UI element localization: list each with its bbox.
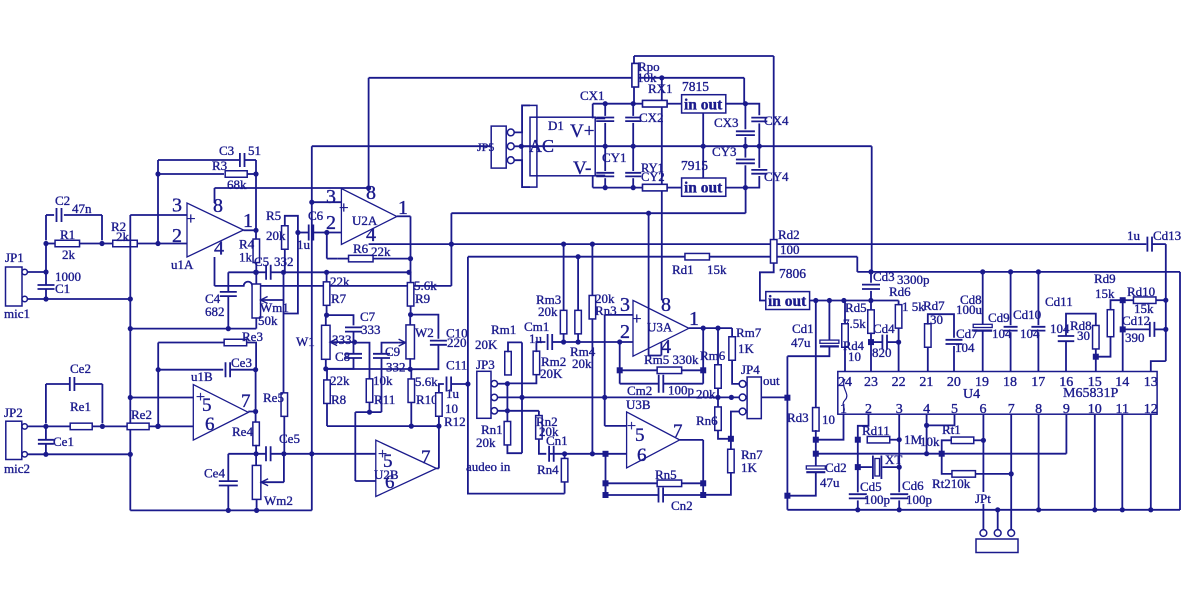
svg-text:Rd3: Rd3 xyxy=(787,410,809,425)
junction ground bus / U2B noninverting xyxy=(309,451,314,456)
svg-text:Cd4: Cd4 xyxy=(873,321,895,336)
wire u1A pin8 stub xyxy=(214,188,216,203)
wire R11 bottom lead xyxy=(369,403,371,413)
svg-text:23: 23 xyxy=(864,375,878,390)
wire U2B inverting riser xyxy=(354,412,356,481)
svg-text:10: 10 xyxy=(822,412,835,427)
svg-text:30: 30 xyxy=(1077,328,1090,343)
junction Rn3 bottom / U3B inverting xyxy=(590,451,595,456)
wire U3B output xyxy=(680,439,704,441)
wire R6 left riser xyxy=(326,233,328,259)
svg-text:R10: R10 xyxy=(416,392,438,407)
wire CY3 top lead xyxy=(744,146,746,157)
svg-text:CY3: CY3 xyxy=(712,144,737,159)
wiper of Wm1 xyxy=(261,299,284,301)
wire XT right xyxy=(882,466,899,468)
junction P1 xyxy=(449,242,454,247)
svg-text:CY4: CY4 xyxy=(764,169,789,184)
junction u1B feedback node xyxy=(155,424,160,429)
junction regulators common xyxy=(701,144,706,149)
wire u1A feedback left riser xyxy=(157,160,159,244)
junction Cd12 right xyxy=(1163,327,1168,332)
wire Rd3 top column xyxy=(815,301,817,409)
wire Rn1 bottom jog xyxy=(507,445,522,453)
svg-text:Cd2: Cd2 xyxy=(825,460,847,475)
wire pin5 jog to pin4 xyxy=(927,414,955,425)
junction C1 bottom node xyxy=(43,296,48,301)
junction AC mid xyxy=(519,144,524,149)
svg-text:R1: R1 xyxy=(60,227,75,242)
wire Cd1 bottom jog xyxy=(787,347,829,356)
svg-text:20K: 20K xyxy=(540,366,563,381)
wire JP5 pin2 AC mid xyxy=(514,145,530,147)
junction R10 bottom xyxy=(409,424,414,429)
wire CY2 bottom lead xyxy=(632,178,634,187)
svg-text:JP3: JP3 xyxy=(476,357,495,372)
junction V+ rail / U3A pin8 column xyxy=(659,75,664,80)
potentiometer Wm2 xyxy=(252,465,261,499)
svg-text:100: 100 xyxy=(780,242,800,257)
wire Rn2 bottom to Cn1 xyxy=(539,439,546,454)
junction Rn5 riser / U3B inverting xyxy=(603,451,609,457)
pin JP3-1 xyxy=(491,381,497,387)
wire JP1 pin1 to node xyxy=(27,271,46,273)
svg-text:W2: W2 xyxy=(415,325,434,340)
wire down to Rd2 top xyxy=(773,56,775,240)
junction R11 bottom xyxy=(367,410,372,415)
svg-text:220: 220 xyxy=(447,335,467,350)
junction Ce5 right / Wm2 wiper riser xyxy=(281,451,286,456)
resistor Rd7 xyxy=(925,324,932,348)
capacitor C7 xyxy=(345,327,362,331)
resistor Rm6 xyxy=(715,365,722,389)
svg-text:1u: 1u xyxy=(446,386,460,401)
wire R5 top jog to C6 node xyxy=(285,216,298,233)
op-amp U3A xyxy=(633,300,689,356)
resistor R4 xyxy=(253,239,259,262)
wire power mid 0V rail xyxy=(521,145,871,147)
wire mic1 lower row xyxy=(46,298,130,300)
wire R6 left xyxy=(337,258,348,260)
capacitor CX2 xyxy=(625,118,641,122)
wire feedback riser to output xyxy=(702,328,704,370)
junction pin8 V+ riser xyxy=(366,185,371,190)
svg-text:24: 24 xyxy=(838,375,852,390)
wire CX3 top lead xyxy=(744,104,746,130)
junction out / Rd3 column xyxy=(813,298,818,303)
wire corner CX1 col xyxy=(592,104,594,119)
junction Ce3 right / Re4 column xyxy=(253,367,258,372)
wire Cn1 right xyxy=(554,453,593,455)
junction Re1 left node xyxy=(43,424,48,429)
wire Rd11 right xyxy=(890,439,899,441)
wire Rt1 left lead xyxy=(942,440,952,453)
wire to C7 top xyxy=(327,315,354,325)
svg-text:10k: 10k xyxy=(373,373,393,388)
wire Ce1 top lead xyxy=(45,428,47,439)
wire Rn6 bottom jog xyxy=(718,430,731,438)
resistor Rpo xyxy=(632,63,639,86)
junction u1B output node xyxy=(253,409,258,414)
wire Rd8 to Rd9 bottom xyxy=(1096,337,1111,357)
label JPt backing xyxy=(975,492,999,504)
svg-text:100p: 100p xyxy=(864,492,890,507)
wire Rm6 bottom lead xyxy=(717,388,719,397)
wire from C2 right plate xyxy=(64,214,102,216)
svg-text:100p: 100p xyxy=(668,383,694,398)
junction Rd8 bottom / pin15 xyxy=(1093,354,1099,360)
wire U3B inverting input xyxy=(592,453,626,455)
wire Rm2 top to Cm1 xyxy=(536,342,545,352)
resistor R12 xyxy=(436,393,443,417)
wire u1A output xyxy=(244,229,257,231)
resistor Re5 xyxy=(281,393,288,417)
svg-text:JP2: JP2 xyxy=(4,405,23,420)
resistor Rd4 xyxy=(842,324,849,348)
capacitor CY3 xyxy=(736,160,755,164)
wire Rn4 bottom lead xyxy=(564,482,566,494)
capacitor CY2 xyxy=(625,173,641,177)
regulator 7815 xyxy=(682,95,726,113)
junction Rd3 bottom / pin1 xyxy=(813,437,819,443)
junction pin4 pin5 tie xyxy=(924,423,929,428)
junction W1 wiper node xyxy=(352,340,357,345)
op-amp u1A xyxy=(187,203,244,257)
wire Cm2 right xyxy=(663,383,703,385)
junction JPt mid ground xyxy=(995,507,1000,512)
resistor Rd8 xyxy=(1093,325,1100,349)
capacitor Cd10 xyxy=(1031,327,1045,331)
svg-text:22: 22 xyxy=(892,375,906,390)
svg-text:10k: 10k xyxy=(920,434,940,449)
wire Rn3 bottom long riser xyxy=(591,319,593,454)
junction pin12 ground xyxy=(1148,507,1153,512)
junction CX3 CY3 mid xyxy=(743,144,748,149)
wire V- distribution with hop xyxy=(215,282,452,286)
capacitor Cd9 xyxy=(1004,327,1018,331)
wire to C2 left plate xyxy=(46,214,54,216)
svg-text:14: 14 xyxy=(1115,375,1129,390)
wire Rm2 bottom jog xyxy=(507,375,536,384)
wire to C10 top xyxy=(411,315,439,339)
wire Rd6 bottom lead xyxy=(898,328,900,342)
capacitor Ce1 xyxy=(38,440,54,444)
resistor R3 xyxy=(225,171,247,178)
junction Rm6 bottom / audio bus xyxy=(715,395,720,400)
capacitor Cd2 xyxy=(806,466,825,469)
capacitor Ce4 xyxy=(219,481,238,485)
wire CY3 bottom lead xyxy=(744,165,746,187)
wire R7 top lead xyxy=(326,272,328,282)
wire Rd6 top lead xyxy=(898,301,900,305)
junction +15V node xyxy=(743,101,748,106)
resistor R1 xyxy=(55,240,80,247)
wire R9 bottom lead xyxy=(410,306,412,314)
junction R7 top / mix row xyxy=(324,270,329,275)
svg-text:Rd9: Rd9 xyxy=(1094,271,1116,286)
wire Rt1 right xyxy=(974,439,984,441)
wire CX2 bottom lead xyxy=(632,123,634,146)
wire U2B inverting row xyxy=(355,411,381,413)
svg-text:C1: C1 xyxy=(55,281,70,296)
junction Rd11 right / pin3 xyxy=(897,437,902,442)
potentiometer W2 xyxy=(406,325,415,359)
svg-text:15k: 15k xyxy=(707,262,727,277)
svg-text:1: 1 xyxy=(243,210,253,232)
svg-text:682: 682 xyxy=(205,304,225,319)
wire to Rn5 xyxy=(606,482,658,484)
connector JP3 xyxy=(477,371,491,418)
wire power mid rail drop xyxy=(871,146,873,272)
wire pin8 column to ground xyxy=(1038,414,1040,510)
svg-text:Re4: Re4 xyxy=(232,424,253,439)
resistor R10 xyxy=(408,379,415,403)
resistor Rd5 xyxy=(868,310,875,334)
junction CY2 bottom xyxy=(631,185,636,190)
pin JP4-1 xyxy=(739,381,746,388)
wire U2A output riser down xyxy=(410,216,412,272)
resistor Rd2 xyxy=(770,240,777,263)
wire R8 bottom lead xyxy=(326,404,328,427)
resistor Rm5 xyxy=(657,367,682,374)
wire R10 bottom lead xyxy=(410,402,412,426)
svg-text:R12: R12 xyxy=(444,414,466,429)
svg-text:6: 6 xyxy=(637,445,647,466)
junction C6 left / R5 jog xyxy=(295,230,300,235)
wire C4 top lead xyxy=(227,272,229,292)
resistor R9 xyxy=(407,283,414,307)
capacitor Cd5 xyxy=(849,494,867,498)
wiper of W1 xyxy=(330,341,354,343)
svg-text:Rn6: Rn6 xyxy=(696,413,718,428)
wire V- supply to U3A pin4 xyxy=(649,213,662,355)
wire rail B +6V feed xyxy=(451,243,1146,245)
svg-text:R5: R5 xyxy=(266,208,281,223)
svg-text:3: 3 xyxy=(326,186,336,208)
capacitor C11 xyxy=(447,377,452,392)
junction Rm5 left xyxy=(617,367,623,373)
junction audio bus / Rm1 column xyxy=(519,395,524,400)
svg-text:1K: 1K xyxy=(738,341,755,356)
junction bias rail / pin4 column xyxy=(924,451,929,456)
junction XT-B / Cd6 xyxy=(897,465,902,470)
wire Cd6 top lead xyxy=(898,467,900,492)
wire left bias bus xyxy=(129,215,131,510)
svg-text:CX3: CX3 xyxy=(714,115,739,130)
svg-text:W1: W1 xyxy=(296,334,315,349)
svg-text:Rm7: Rm7 xyxy=(736,325,762,340)
junction Rd11 left / XT-A column xyxy=(855,437,861,443)
wire Ce5 right row to bias bus xyxy=(271,453,312,455)
svg-text:5: 5 xyxy=(202,395,212,416)
wire JP3 pin1 xyxy=(498,383,508,385)
wire Rm1 top jog xyxy=(508,342,522,352)
junction R7 bottom / C7 tap xyxy=(324,313,329,318)
junction R1 left node xyxy=(43,241,48,246)
resistor R5 xyxy=(282,226,289,250)
svg-text:1u: 1u xyxy=(1127,228,1141,243)
wire V+ output xyxy=(595,117,605,119)
wire R5 bottom lead xyxy=(284,249,286,272)
wire C6 left xyxy=(298,232,309,234)
wire Rm6 top riser xyxy=(717,328,719,365)
wire pin14 stub xyxy=(1122,329,1124,371)
wire Wm1 top lead xyxy=(255,272,257,284)
svg-text:333: 333 xyxy=(332,332,352,347)
wire CX1 bottom lead xyxy=(604,123,606,146)
wire pin1 to Rd3 xyxy=(816,414,844,440)
wire u1B noninverting input row xyxy=(130,397,193,399)
svg-text:audeo in: audeo in xyxy=(466,459,511,474)
svg-text:Ce3: Ce3 xyxy=(231,355,252,370)
wire Rn4 top lead xyxy=(564,454,566,459)
junction output / Rm6 top xyxy=(715,326,720,331)
crystal XT xyxy=(873,456,882,480)
junction bias bus / mic1 lower row xyxy=(128,296,133,301)
capacitor CX3 xyxy=(736,131,755,135)
resistor R8 xyxy=(324,380,331,404)
svg-text:2k: 2k xyxy=(116,229,130,244)
wire minus raw rail left xyxy=(593,187,643,189)
svg-text:332: 332 xyxy=(386,360,406,375)
pin JPt-2 xyxy=(994,530,1001,537)
svg-text:U2A: U2A xyxy=(352,213,378,228)
junction Rn5 left xyxy=(603,480,609,486)
junction R9 bottom / C10 tap xyxy=(408,312,413,317)
capacitor C2 xyxy=(57,208,62,222)
junction Wm1 top / C5 row xyxy=(254,270,259,275)
wire C2 left riser xyxy=(45,215,47,240)
junction Cd6 ground xyxy=(897,507,902,512)
wire Rm7 top lead xyxy=(731,328,733,337)
pin JP2-1 xyxy=(22,424,27,429)
capacitor Ce5 xyxy=(266,446,271,461)
junction Ce1 bottom xyxy=(43,452,48,457)
junction Re1 right node xyxy=(100,424,105,429)
pin JP1-2 xyxy=(22,296,27,301)
junction bias bus / C4 row xyxy=(128,326,133,331)
wire Cd9 top lead xyxy=(1010,272,1012,325)
wire Cd7 bottom to pin20 stub xyxy=(953,346,955,372)
wire Rm5 left riser xyxy=(619,342,621,370)
wire Cd10 bottom to pin17 stub xyxy=(1037,332,1039,371)
svg-text:20k: 20k xyxy=(266,228,286,243)
svg-text:R8: R8 xyxy=(331,392,346,407)
svg-text:U2B: U2B xyxy=(374,467,399,482)
junction bias rail / Rt1 Rt2 xyxy=(939,451,945,457)
wire u1B feedback riser xyxy=(157,343,159,427)
svg-text:Ce1: Ce1 xyxy=(53,434,74,449)
wire Cd6 bottom lead xyxy=(898,500,900,509)
resistor Rm7 xyxy=(729,337,736,361)
junction Rt1 right / pin6 column xyxy=(981,438,986,443)
resistor Rn6 xyxy=(715,407,722,431)
wire pin3 column xyxy=(898,414,900,467)
svg-text:20K: 20K xyxy=(475,337,498,352)
wire u1A output feedback column xyxy=(255,160,257,239)
wire Rm5 right xyxy=(681,369,703,371)
resistor RY1 xyxy=(643,184,668,191)
wire pin2 jog to Rd11 left xyxy=(858,414,869,440)
wire CY1 bottom lead xyxy=(604,178,606,187)
wire Rm3 bottom lead xyxy=(563,334,565,342)
svg-text:C5: C5 xyxy=(254,254,269,269)
svg-text:100p: 100p xyxy=(906,492,932,507)
pin JP3-3 xyxy=(491,408,497,414)
capacitor Cd13 xyxy=(1147,237,1152,252)
wire W1 bottom lead xyxy=(325,359,327,369)
capacitor C10 xyxy=(430,341,447,345)
wire right column down xyxy=(1165,244,1167,361)
junction R3 left xyxy=(155,171,160,176)
svg-text:CX1: CX1 xyxy=(580,88,605,103)
resistor Rm2 xyxy=(533,351,540,375)
wire R2 to u1A inverting input xyxy=(137,243,187,245)
svg-text:Rd7: Rd7 xyxy=(923,298,945,313)
junction W1 bottom / R8 top xyxy=(323,366,328,371)
junction u1B inverting input xyxy=(156,424,161,429)
svg-text:Cd1: Cd1 xyxy=(792,321,814,336)
wire R8 top lead xyxy=(326,369,328,380)
wire to Ce2 xyxy=(46,383,70,385)
wire U2B inverting input xyxy=(355,480,376,482)
svg-text:mic2: mic2 xyxy=(4,461,30,476)
junction rail B / Rm3 xyxy=(561,242,566,247)
wire Rd8 bottom lead xyxy=(1095,349,1097,357)
junction Ce4 bottom xyxy=(226,508,231,513)
svg-text:104: 104 xyxy=(955,340,975,355)
wire to R3 xyxy=(158,173,224,175)
svg-text:8: 8 xyxy=(366,182,376,204)
wire Rd3 bottom lead xyxy=(815,430,817,466)
capacitor Cd6 xyxy=(890,494,908,498)
wire Cm2 right riser xyxy=(702,370,704,383)
wire jog to pin13 stub xyxy=(1151,361,1166,371)
wire pin11 column to ground xyxy=(1121,414,1123,510)
wire Ce4 top row xyxy=(228,453,265,455)
resistor Rn7 xyxy=(728,449,735,473)
wire mic2 lower row xyxy=(46,453,130,455)
junction JP3 pin3 / Rn1 column xyxy=(505,408,510,413)
junction Rn4 top xyxy=(562,451,567,456)
wire Rm7 bottom to JP4 pin1 xyxy=(732,360,739,384)
svg-text:3: 3 xyxy=(620,294,630,316)
wire minus raw rail to 7915 xyxy=(667,187,682,189)
wire pin6 column to JPt xyxy=(982,440,984,529)
wire Cd3 bottom lead xyxy=(870,291,872,301)
svg-text:5.6k: 5.6k xyxy=(415,374,438,389)
junction R12 bottom / U2B output riser xyxy=(436,424,441,429)
wire U3A pin4 stub xyxy=(660,342,662,356)
junction Ce3 left xyxy=(156,367,161,372)
capacitor Cd7 xyxy=(946,340,963,344)
potentiometer W1 xyxy=(322,325,331,359)
wire R6 right xyxy=(373,258,411,260)
svg-text:CY1: CY1 xyxy=(602,150,627,165)
wire Rt2 left lead xyxy=(942,454,952,474)
pin JP5-1 xyxy=(507,129,514,136)
wire to Re3 xyxy=(158,342,224,344)
svg-text:C8: C8 xyxy=(335,349,350,364)
capacitor C5 xyxy=(266,265,271,280)
wire Wm2 bottom lead xyxy=(256,500,258,511)
svg-text:+: + xyxy=(186,209,196,228)
wire C4 bottom lead xyxy=(227,296,229,329)
junction CX2 top / Rpo bottom xyxy=(631,101,636,106)
junction Rm5 right xyxy=(700,367,706,373)
svg-text:4: 4 xyxy=(214,238,224,260)
resistor Rpo body redraw xyxy=(632,63,639,86)
